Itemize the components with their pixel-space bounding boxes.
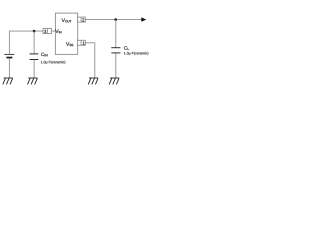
value label CL 1.0uF ceramic xyxy=(124,52,148,55)
ground (VSS) xyxy=(88,78,98,84)
ground (CL) xyxy=(109,78,119,84)
wire CIN to ground xyxy=(33,60,35,78)
node B junction dot xyxy=(114,18,117,21)
label VIN xyxy=(55,29,61,33)
wire VIN left xyxy=(9,30,43,32)
ground (battery) xyxy=(3,78,13,84)
wire CIN top xyxy=(33,31,35,53)
wire CL top xyxy=(115,20,117,48)
label CL xyxy=(124,46,129,50)
label VSS xyxy=(66,42,73,46)
label CIN xyxy=(41,53,47,57)
arrowhead output xyxy=(141,17,146,21)
wire battery vertical xyxy=(8,31,10,54)
pin 1 xyxy=(78,40,86,45)
battery B1 plate + xyxy=(4,53,14,55)
pin 3 xyxy=(43,29,51,34)
ground (CIN) xyxy=(28,78,38,84)
label VOUT xyxy=(62,18,72,22)
IC regulator body xyxy=(55,13,77,54)
wire VOUT xyxy=(85,19,141,21)
wire battery to ground xyxy=(8,58,10,78)
wire VSS down xyxy=(94,43,96,78)
pin 2 xyxy=(78,17,86,22)
wire CL to ground xyxy=(115,53,117,78)
node A junction dot xyxy=(33,30,36,33)
battery B1 plate - xyxy=(6,57,12,59)
value label CIN 1.0uF ceramic xyxy=(41,61,65,64)
wire VSS right xyxy=(85,42,95,44)
capacitor CL xyxy=(111,48,120,53)
capacitor CIN xyxy=(30,54,39,60)
wire pin3 to IC xyxy=(51,30,55,32)
